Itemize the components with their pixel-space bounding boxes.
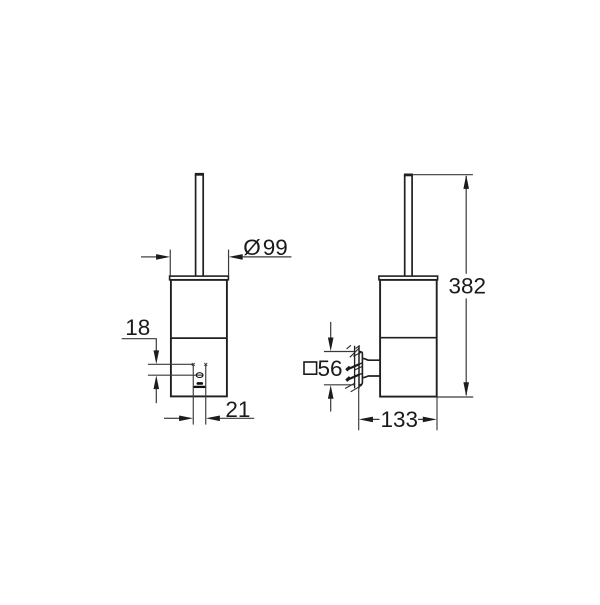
dim 56 arrow down bbox=[328, 338, 334, 352]
dim O99 arrow left bbox=[156, 254, 170, 260]
left view lid bbox=[170, 276, 229, 280]
wall line outer bbox=[354, 346, 356, 389]
dim 56 arrow up tail bbox=[330, 398, 332, 411]
dim 133 arrow left bbox=[359, 417, 373, 423]
dim 56 extension line bottom bbox=[324, 384, 354, 386]
right view brush handle bbox=[404, 175, 413, 276]
left view brush handle bbox=[195, 174, 204, 276]
left view hole marker left bbox=[192, 363, 195, 366]
dim 382 line lower bbox=[465, 298, 467, 395]
dim 18 leader underline bbox=[122, 339, 157, 351]
dim 382 arrow up bbox=[463, 175, 469, 189]
dim 382 extension line bottom bbox=[437, 396, 474, 398]
dim 18 arrow down bbox=[154, 350, 160, 364]
left view container body bbox=[171, 280, 227, 397]
dim 382 line upper bbox=[465, 176, 467, 274]
left view mounting bar bbox=[193, 386, 205, 388]
dim 21 extension line right bbox=[205, 365, 207, 425]
dim 56 square symbol bbox=[304, 362, 317, 374]
left view screw head bbox=[196, 373, 204, 378]
dim O99 extension line left bbox=[169, 250, 171, 276]
dim 21 extension line left bbox=[192, 365, 194, 425]
right view lid bbox=[379, 276, 438, 280]
dim 21 line left segment bbox=[164, 417, 180, 419]
dim 133 arrow right bbox=[423, 417, 437, 423]
mount flange plate bbox=[359, 352, 362, 385]
svg-text:18: 18 bbox=[125, 315, 150, 340]
dim O99 extension line right bbox=[228, 250, 230, 276]
dim O99 arrow right bbox=[229, 254, 243, 260]
svg-text:56: 56 bbox=[318, 356, 343, 381]
dim 133 extension line left bbox=[358, 386, 360, 431]
dim 382 extension line top bbox=[413, 174, 473, 176]
wall screw mark lower bbox=[347, 375, 359, 380]
dim 18 arrow up tail bbox=[155, 389, 157, 404]
dim 56 arrow down tail bbox=[330, 322, 332, 338]
wall screw mark upper bbox=[347, 364, 359, 369]
dim 21 arrow right bbox=[206, 416, 220, 422]
dim 133 line bbox=[373, 418, 424, 420]
dim 133 label halo bbox=[380, 410, 419, 430]
wall line inner bbox=[358, 346, 360, 389]
left view screw slot blob bbox=[197, 382, 204, 385]
dim 56 arrow up bbox=[328, 385, 334, 399]
svg-text:133: 133 bbox=[381, 407, 419, 432]
dim 382 arrow down bbox=[463, 382, 469, 396]
left view glass split line bbox=[171, 337, 227, 339]
right view glass split line bbox=[380, 337, 437, 339]
dim 18 extension line upper bbox=[148, 363, 193, 365]
dim 21 arrow left bbox=[179, 416, 193, 422]
right view container body bbox=[380, 280, 437, 397]
dim 18 extension line lower bbox=[148, 374, 196, 376]
dim 56 extension line top bbox=[324, 351, 354, 353]
svg-text:Ø: Ø bbox=[243, 235, 261, 260]
svg-text:21: 21 bbox=[225, 397, 250, 422]
dim O99 line left segment bbox=[141, 256, 157, 258]
mount cone top edge bbox=[362, 358, 380, 360]
dim 18 arrow up bbox=[154, 375, 160, 389]
dim O99 line right segment bbox=[242, 256, 291, 258]
wall hatching bbox=[345, 345, 363, 392]
mount cone bottom edge bbox=[362, 376, 380, 378]
dim 21 line right segment bbox=[219, 417, 254, 419]
svg-text:382: 382 bbox=[449, 274, 487, 299]
left view hole marker right bbox=[204, 363, 207, 366]
dim 133 extension line right bbox=[436, 397, 438, 430]
svg-text:99: 99 bbox=[263, 235, 288, 260]
